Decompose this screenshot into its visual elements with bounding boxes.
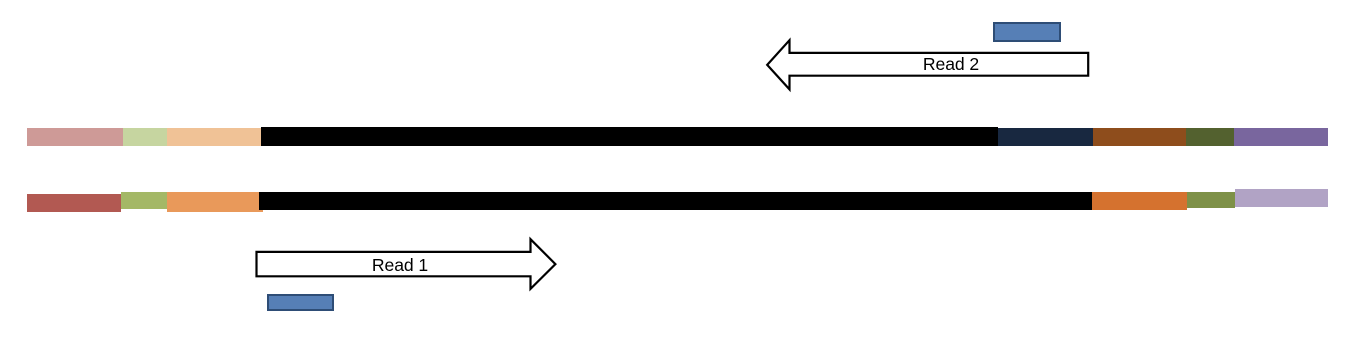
- bar2 seg green: [121, 192, 168, 210]
- bar1 seg purple: [1234, 128, 1329, 146]
- label Read 2: [851, 54, 1051, 75]
- bar1 seg navy: [998, 128, 1093, 146]
- bar1 seg dark olive: [1186, 128, 1233, 146]
- bar1 seg pink: [27, 128, 123, 146]
- bar2 seg orange2: [1092, 192, 1188, 210]
- bar2 seg olive: [1187, 192, 1235, 208]
- bar1 seg brown: [1093, 128, 1186, 146]
- bar2 seg orange (left, drawn under black): [167, 192, 263, 212]
- blue rect (read 2 adapter): [993, 22, 1061, 42]
- bar1 seg black: [261, 127, 998, 146]
- bar2 seg dark red: [27, 194, 121, 212]
- bar1 seg peach: [167, 128, 261, 146]
- bar2 seg black: [259, 192, 1092, 210]
- bar2 seg light purple: [1235, 189, 1328, 207]
- label Read 1: [300, 255, 500, 276]
- bar1 seg light green: [123, 128, 167, 146]
- blue rect (read 1 adapter): [267, 294, 335, 312]
